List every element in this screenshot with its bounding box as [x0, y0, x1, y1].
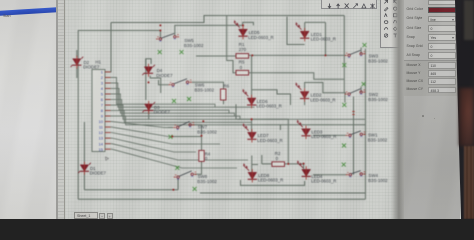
wire H1 pin 6 fan [105, 100, 240, 120]
wire D4 to D3 column [145, 59, 147, 100]
switch SW7 [173, 121, 194, 130]
diode D2 [71, 56, 84, 69]
svg-text:DIODE7: DIODE7 [154, 110, 171, 115]
connector H1 pin 12 stub [105, 132, 111, 134]
connector H1 pin 11 stub [105, 126, 111, 128]
wire left outer loop [78, 31, 160, 200]
scrollbar [391, 0, 404, 219]
wire H1 pin 3 fan [105, 83, 255, 107]
svg-text:LED-0603_R: LED-0603_R [311, 134, 336, 139]
svg-text:LED-0603_R: LED-0603_R [311, 179, 336, 184]
svg-text:B3S-1002: B3S-1002 [197, 129, 217, 134]
wire SW8 left drop [84, 179, 178, 190]
wire H1 pin 12 fan [105, 133, 220, 144]
wire H1 pin 10 fan [105, 122, 173, 128]
connector H1 pin 4 stub [105, 87, 111, 89]
wire SW3 right pin riser [360, 48, 362, 54]
svg-text:LED-0603_R: LED-0603_R [310, 97, 335, 102]
svg-text:B3S-1002: B3S-1002 [184, 43, 204, 48]
wire R4 bottom to SW8 [195, 161, 202, 174]
panel row Mouse Y [404, 70, 458, 79]
diode D4 [142, 64, 155, 77]
wire R5 feed drop [227, 16, 236, 73]
connector H1 pin 3 stub [105, 82, 111, 84]
diode D1 [78, 162, 91, 175]
connector H1 pin 2 stub [105, 76, 111, 78]
wire H1 pin 4 fan [105, 88, 229, 113]
wire top long run [111, 16, 344, 23]
junction node C [242, 24, 244, 26]
no-connect X SW6 pin2 [187, 97, 191, 101]
wire LED1 column [287, 17, 326, 45]
no-connect X SW3 pin1 [342, 63, 346, 67]
wire SW2 right pin riser [360, 87, 362, 93]
panel row All Snap [404, 52, 458, 61]
connector H1 pin 7 stub [105, 104, 111, 106]
svg-text:B3S-1002: B3S-1002 [195, 88, 215, 93]
svg-text:15: 15 [99, 147, 104, 152]
connector H1 pin 10 stub [105, 121, 111, 123]
switch SW5 [156, 33, 179, 41]
svg-text:B3S-1002: B3S-1002 [368, 97, 388, 102]
wire SW2 column from top [344, 16, 346, 93]
svg-text:DIODE7: DIODE7 [90, 171, 107, 176]
resistor R2 [272, 162, 285, 167]
svg-text:B3S-1002: B3S-1002 [197, 179, 217, 184]
panel row Snap [404, 34, 458, 43]
junction node D [251, 118, 253, 120]
wire bottom bus [200, 192, 365, 194]
connector H1 pin 5 stub [105, 93, 111, 95]
properties panel [404, 0, 460, 219]
no-connect X SW1 pin1 [342, 144, 346, 148]
switch SW3 [345, 50, 366, 58]
no-connect X SW2 pin2 [362, 82, 366, 86]
svg-text:H1: H1 [95, 60, 101, 65]
blue title bar of background window [0, 7, 59, 15]
panel row Grid Size [404, 24, 458, 33]
switch SW1 [346, 131, 366, 138]
wire bottom border [78, 198, 365, 200]
connector H1 pin 15 stub [105, 148, 111, 150]
LED LED4 [297, 160, 311, 179]
panel row Grid Color [404, 6, 458, 15]
svg-text:LED-0603_R: LED-0603_R [256, 104, 281, 109]
junction node N [251, 54, 253, 56]
junction node B [159, 24, 161, 26]
wire D1 pins [83, 122, 85, 190]
wire R1 output [249, 54, 346, 56]
junction node G [303, 163, 305, 165]
background wood lower [464, 146, 474, 219]
wire R5 output [249, 73, 344, 80]
svg-text:LED-0603_R: LED-0603_R [311, 37, 336, 42]
svg-text:DIODE7: DIODE7 [83, 65, 100, 70]
wire H1 pin 13 fan [105, 138, 196, 152]
wire LED3 to SW1 [313, 134, 366, 135]
svg-text:B3S-1002: B3S-1002 [368, 58, 388, 63]
small text on background window [3, 14, 11, 18]
switch SW4 [346, 171, 366, 178]
switch SW6 [169, 79, 192, 88]
no-connect X SW5 pin1 [158, 50, 162, 54]
svg-text:LED-0603_R: LED-0603_R [248, 35, 273, 40]
svg-text:14: 14 [99, 141, 104, 146]
svg-text:10: 10 [99, 119, 104, 124]
switch SW8 [174, 171, 197, 180]
wire H1 pin 14 fan [105, 144, 248, 160]
no-connect X SW8 pin1 [193, 187, 197, 191]
wire mid row long [237, 119, 288, 164]
LED LED1 [296, 22, 310, 41]
svg-text:R6: R6 [224, 84, 230, 89]
svg-text:DIODE7: DIODE7 [156, 73, 173, 78]
panel row Mouse CX [404, 78, 458, 87]
wire H1 pin 7 fan [105, 105, 365, 119]
junction node L [251, 118, 253, 120]
junction node F [287, 163, 289, 165]
panel partial top row [428, 0, 456, 5]
wire SW6 to R6 [192, 82, 224, 89]
wire SW3 feed [325, 22, 327, 55]
LED LED5 [234, 20, 248, 39]
connector H1 body [92, 70, 105, 152]
LED LED2 [296, 82, 310, 101]
no-connect X SW5 pin2 [180, 50, 184, 54]
svg-text:0: 0 [276, 156, 279, 161]
connector H1 resize handle [106, 157, 109, 160]
svg-text:B3S-1002: B3S-1002 [368, 178, 388, 183]
wire LED4 to SW4 [304, 164, 366, 175]
resistor R5 [236, 70, 249, 75]
connector H1 pin 6 stub [105, 99, 111, 101]
schematic canvas [65, 0, 398, 219]
wire LED8 feed [252, 156, 258, 173]
connector H1 pin 13 stub [105, 137, 111, 139]
junction node E [325, 54, 327, 56]
no-connect X SW6 pin1 [172, 99, 176, 103]
LED LED6 [243, 89, 257, 108]
wire LED6 drop [252, 56, 291, 105]
switch SW2 [345, 89, 366, 97]
wire D2 pins [76, 50, 78, 78]
floating horizontal toolbar [321, 0, 377, 9]
svg-text:12: 12 [99, 130, 104, 135]
wire H1 pin1 riser [105, 23, 111, 72]
panel row Mouse CY [404, 86, 458, 95]
pin marks on inner bus [352, 112, 354, 115]
LED LED7 [243, 123, 257, 142]
no-connect X SW8 pin2 [175, 166, 179, 170]
resistor R1 [236, 54, 249, 59]
panel row Snap Grid [404, 43, 458, 52]
no-connect X SW7 pin1 [169, 135, 173, 139]
window edge [56, 0, 58, 219]
wire D4 top jog [146, 59, 151, 67]
junction node M [148, 81, 150, 83]
junction node A [159, 30, 161, 32]
wire D4 bottom link [150, 76, 161, 93]
wire H1 pin 2 fan [105, 77, 215, 107]
svg-text:13: 13 [99, 136, 104, 141]
diode D3 [143, 101, 156, 114]
connector H1 pin 1 stub [105, 71, 111, 73]
sheet tab bar [65, 211, 398, 219]
background top right [464, 0, 474, 40]
wire SW6 left link [159, 80, 169, 85]
LED LED3 [297, 120, 311, 139]
wire right bus vertical [364, 49, 366, 200]
wire H1 pin 5 fan [105, 94, 235, 116]
svg-text:LED-0603_R: LED-0603_R [257, 138, 282, 143]
wire R1 feed [196, 55, 236, 57]
vertical ruler [58, 0, 65, 219]
wire LED2 bottom [305, 83, 345, 106]
svg-text:B3S-1002: B3S-1002 [368, 138, 388, 143]
resistor R4 [199, 150, 204, 161]
panel row Grid Style [404, 15, 458, 24]
connector H1 pin 9 stub [105, 115, 111, 117]
svg-text:270: 270 [239, 47, 247, 52]
connector H1 pin 8 stub [105, 110, 111, 112]
svg-text:0: 0 [240, 65, 243, 70]
wire top row to LED5 [160, 22, 253, 37]
junction node H [171, 136, 173, 138]
no-connect X SW3 pin2 [363, 43, 367, 47]
wire R2 net [262, 155, 304, 164]
wire LED8 LED4 bottom link [241, 180, 305, 185]
wire H1 pin 11 fan [105, 127, 202, 136]
wire R6 bottom [223, 100, 225, 104]
junction node K [172, 189, 174, 191]
wire row link x236 [235, 104, 237, 119]
background blob upper [459, 88, 474, 146]
wire D3 bottom [148, 111, 150, 120]
connector H1 pin 14 stub [105, 143, 111, 145]
resistor R6 [221, 89, 226, 100]
wire H1 pin 15 fan [105, 149, 237, 168]
wire H1 pin 9 fan [105, 116, 248, 125]
background window on left [0, 0, 58, 219]
LED LED8 [243, 163, 257, 182]
junction node J [202, 120, 204, 122]
no-connect X SW4 pin2 [342, 163, 346, 167]
floating vertical drawing toolbar [380, 0, 402, 48]
wire H1 pin 8 fan [105, 111, 252, 123]
wire right inner bus [353, 97, 355, 175]
svg-text:LED-0603_R: LED-0603_R [258, 178, 283, 183]
wire LED7 feed [248, 119, 366, 132]
no-connect X SW2 pin1 [342, 103, 346, 107]
wire SW7 net [168, 125, 202, 151]
panel row Mouse X [404, 62, 458, 71]
junction node I [201, 135, 203, 137]
